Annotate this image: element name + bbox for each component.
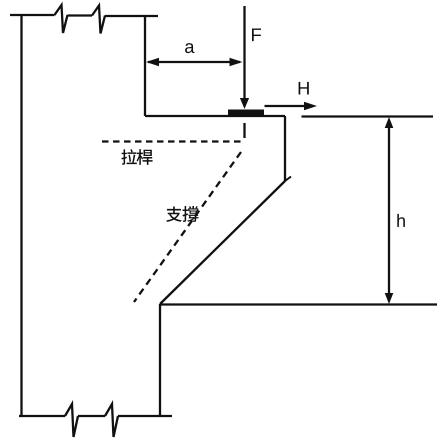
- bearing plate: [228, 110, 264, 117]
- corbel sloped edge: [160, 181, 285, 304]
- column left edge wire: [20, 15, 22, 416]
- force F arrow: [240, 6, 249, 109]
- beam seat top edge: [302, 115, 434, 117]
- break symbol top-left: [55, 5, 68, 33]
- dimension line a: [146, 58, 243, 66]
- column lower right edge wire: [159, 304, 161, 416]
- break symbol bottom-right: [105, 404, 118, 437]
- tie rod end tick: [243, 123, 245, 138]
- column bottom edge line: [19, 415, 172, 417]
- corbel top edge: [145, 115, 285, 117]
- strut dashed line: [134, 152, 241, 302]
- break symbol bottom-left: [65, 404, 78, 437]
- break symbol top-right: [92, 6, 105, 34]
- column top edge line: [10, 15, 158, 16]
- label a: [185, 43, 194, 53]
- label 支撐: [166, 206, 198, 222]
- force H arrow: [265, 102, 318, 111]
- floor line: [160, 303, 437, 305]
- label h: [397, 214, 405, 227]
- label H: [299, 82, 309, 95]
- label 拉桿: [121, 149, 152, 165]
- label F: [252, 28, 261, 41]
- corbel corner tick: [285, 177, 291, 182]
- tie rod dashed line: [102, 140, 244, 142]
- dimension line h: [385, 117, 394, 304]
- column upper right edge wire: [144, 15, 146, 116]
- corbel right edge: [284, 116, 286, 181]
